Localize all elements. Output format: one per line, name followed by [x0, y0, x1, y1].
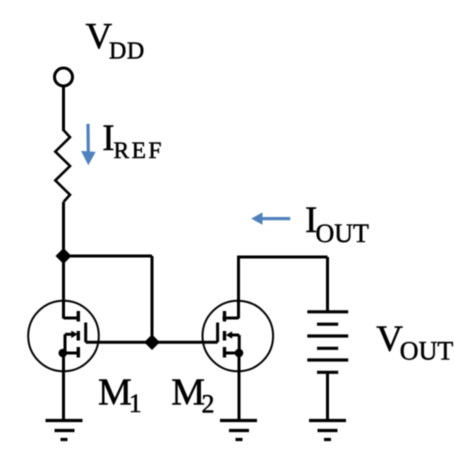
- node B (gate bus junction): [144, 334, 160, 350]
- label M2: [171, 371, 214, 418]
- net label IREF: [102, 118, 164, 164]
- svg-text:1: 1: [129, 389, 142, 418]
- svg-text:OUT: OUT: [400, 337, 454, 366]
- wire top M2 drain to battery: [237, 256, 327, 259]
- terminal VDD: [55, 68, 73, 86]
- net label VDD: [86, 16, 145, 64]
- wire M2 source to ground: [238, 353, 241, 420]
- net label VOUT: [376, 319, 453, 366]
- wire gate bus M1 to M2: [86, 341, 218, 344]
- wire down to node B: [151, 256, 154, 342]
- wire M2 drain up: [237, 257, 240, 319]
- net label IOUT: [305, 200, 369, 248]
- svg-text:M: M: [171, 371, 205, 413]
- svg-text:OUT: OUT: [316, 219, 370, 248]
- wire VDD terminal to resistor: [62, 87, 65, 131]
- wire node A to right: [64, 255, 153, 258]
- svg-text:2: 2: [202, 390, 215, 419]
- ground (battery): [309, 421, 346, 440]
- wire battery top: [326, 257, 329, 312]
- svg-text:M: M: [98, 371, 132, 413]
- battery VOUT source: [307, 312, 348, 373]
- ground (M1 source): [46, 421, 83, 440]
- ground (M2 source): [220, 421, 257, 440]
- transistor M1: [28, 301, 99, 372]
- wire battery to ground: [326, 372, 329, 420]
- node A (M1 drain junction): [56, 248, 72, 264]
- svg-text:REF: REF: [114, 138, 164, 164]
- label M1: [98, 371, 142, 418]
- current arrow IREF: [81, 124, 96, 166]
- svg-text:DD: DD: [109, 39, 145, 65]
- transistor M2: [203, 301, 274, 372]
- wire resistor to M1 drain: [62, 202, 65, 319]
- current arrow IOUT: [251, 212, 290, 224]
- resistor R1: [55, 130, 70, 202]
- wire M1 source to ground: [62, 353, 65, 420]
